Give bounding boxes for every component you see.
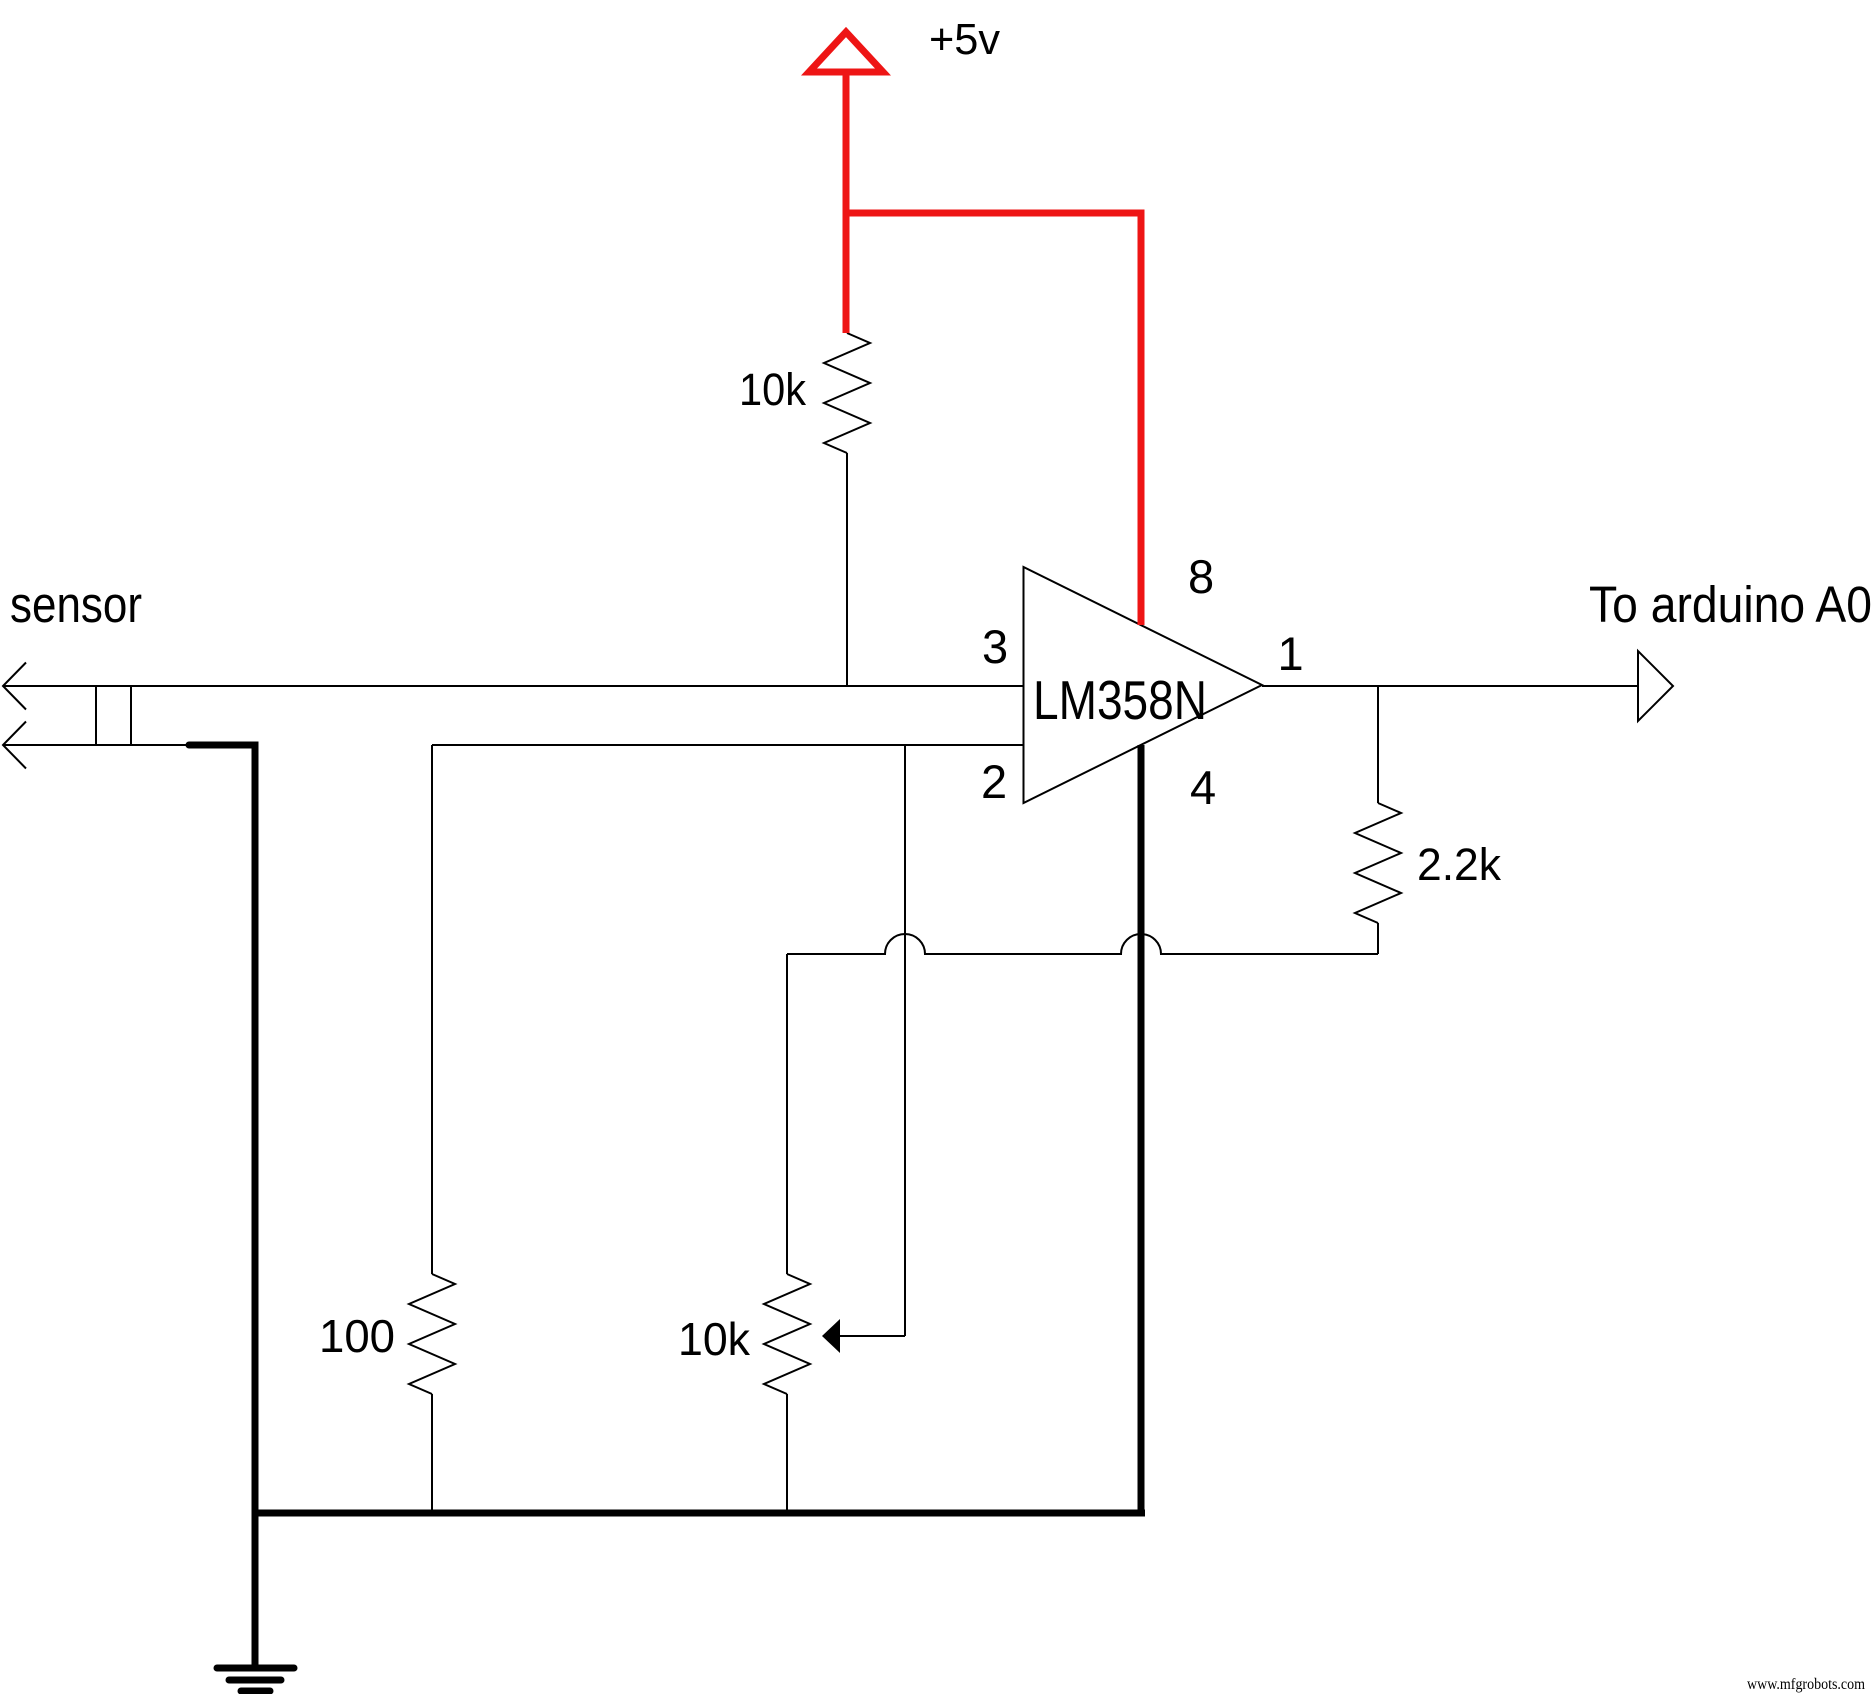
svg-text:To arduino A0: To arduino A0 (1589, 576, 1872, 633)
svg-text:100: 100 (319, 1310, 395, 1362)
svg-text:+5v: +5v (929, 15, 1000, 64)
svg-text:www.mfgrobots.com: www.mfgrobots.com (1747, 1676, 1865, 1693)
svg-text:2.2k: 2.2k (1417, 839, 1501, 890)
svg-text:LM358N: LM358N (1033, 669, 1207, 731)
svg-text:10k: 10k (739, 364, 806, 415)
svg-text:8: 8 (1188, 550, 1214, 603)
svg-text:2: 2 (981, 755, 1007, 808)
svg-text:10k: 10k (678, 1313, 751, 1365)
svg-text:3: 3 (982, 620, 1008, 673)
svg-text:sensor: sensor (10, 576, 142, 633)
svg-text:4: 4 (1190, 761, 1216, 814)
svg-text:1: 1 (1278, 627, 1304, 680)
